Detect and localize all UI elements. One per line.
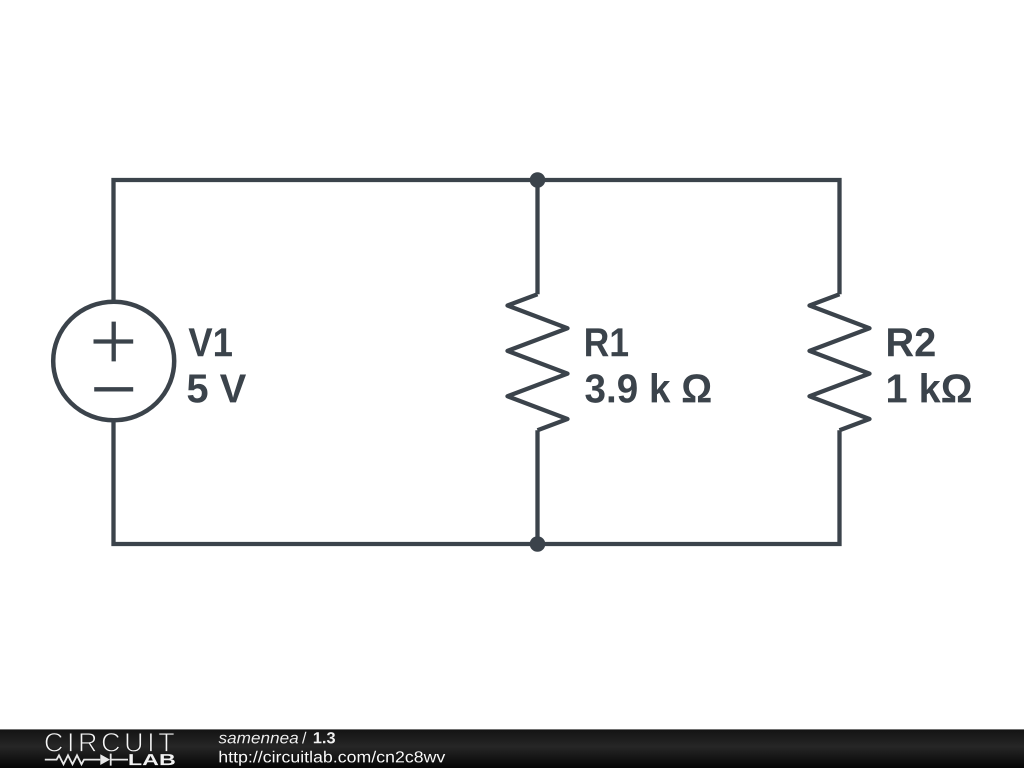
label R1 [586,328,628,356]
V1 minus sign [94,387,133,391]
logo LAB wordmark [129,754,174,765]
value 5 V [188,375,246,403]
wire R1 lower lead [535,430,539,544]
footer username samennea [219,735,299,744]
wire bottom rail from V1 to R2 with corner risers [114,420,840,545]
footer url [220,751,446,766]
resistor R2 zigzag [810,294,870,430]
node junction dot top [530,172,546,188]
label R2 [888,328,935,356]
V1 plus sign [94,322,134,362]
node junction dot bottom [530,536,546,552]
footer version 1.3 [314,732,335,743]
value 1 kOhm [888,373,971,402]
logo diode triangle [100,754,110,765]
voltage source V1 circle [53,302,174,421]
resistor R1 zigzag [508,294,568,430]
wire R1 upper lead [535,180,539,294]
wire top rail from V1 to R2 with corner drops [114,180,840,303]
value 3.9 k Ohm [585,373,710,403]
logo diode symbol [111,754,128,766]
label V1 [189,328,232,356]
logo CIRCUIT wordmark [45,733,174,752]
footer bar [0,729,1024,768]
logo resistor icon [45,755,101,764]
footer separator slash [302,732,306,744]
